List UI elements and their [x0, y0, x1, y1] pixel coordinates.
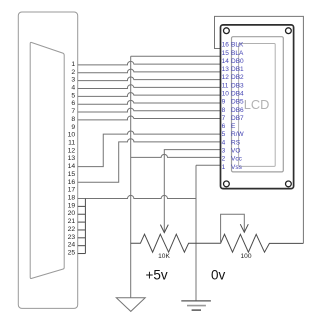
ground bus ladder: connector pins 19-25 stubs	[78, 199, 86, 254]
svg-text:17: 17	[68, 187, 76, 194]
svg-text:11: 11	[222, 82, 229, 89]
wire data D5: connector pin 6 to LCD pin 9 DB5	[78, 100, 221, 104]
svg-text:2: 2	[222, 156, 226, 163]
svg-text:15: 15	[68, 171, 76, 178]
svg-text:9: 9	[71, 124, 75, 131]
svg-text:19: 19	[68, 202, 76, 209]
svg-text:4: 4	[222, 139, 226, 146]
svg-text:16: 16	[222, 42, 230, 49]
svg-text:13: 13	[68, 155, 76, 162]
ground earth symbol	[181, 301, 211, 310]
svg-text:7: 7	[71, 108, 75, 115]
svg-text:11: 11	[68, 140, 75, 147]
10K wiper arrowhead	[160, 225, 168, 233]
svg-text:7: 7	[222, 115, 226, 122]
svg-text:8: 8	[71, 116, 75, 123]
svg-text:1: 1	[71, 61, 75, 68]
svg-text:22: 22	[68, 226, 76, 233]
svg-text:14: 14	[68, 163, 76, 170]
LCD mounting hole top-right	[286, 28, 292, 34]
svg-text:LCD: LCD	[244, 97, 270, 112]
wire R/W: connector pin 14 up to LCD pin 5 R/W	[78, 131, 221, 167]
svg-text:DB1: DB1	[231, 66, 244, 73]
LCD inner bezel rectangle	[232, 37, 284, 172]
wire data D7: connector pin 8 to LCD pin 7 DB7	[78, 116, 221, 120]
LCD mounting hole bottom-left	[224, 181, 230, 187]
svg-text:13: 13	[222, 66, 230, 73]
svg-text:0v: 0v	[211, 268, 226, 283]
wire data D6: connector pin 7 to LCD pin 8 DB6	[78, 108, 221, 112]
svg-text:10: 10	[68, 132, 76, 139]
LCD pin labels 16..1	[222, 42, 245, 171]
wire data D1: connector pin 2 to LCD pin 13 DB1	[78, 69, 221, 73]
wire BLK loop: LCD pin 16 around module to 100 pot	[215, 16, 304, 243]
wire data D2: connector pin 3 to LCD pin 12 DB2	[78, 77, 221, 81]
svg-text:25: 25	[68, 250, 76, 257]
svg-text:VO: VO	[231, 148, 240, 155]
svg-text:2: 2	[71, 69, 75, 76]
svg-text:10K: 10K	[158, 253, 170, 260]
potentiometer RV2 100 body	[196, 234, 303, 252]
svg-text:1: 1	[222, 164, 226, 171]
potentiometer RV2 wiper wire	[221, 214, 245, 243]
svg-text:10: 10	[222, 91, 230, 98]
wire RS: connector pin 16 up to LCD pin 4 RS	[78, 139, 221, 183]
svg-text:3: 3	[71, 77, 75, 84]
svg-text:Vss: Vss	[231, 164, 243, 171]
svg-text:4: 4	[71, 85, 75, 92]
svg-text:BLK: BLK	[231, 42, 244, 49]
100 wiper arrowhead	[240, 224, 248, 232]
svg-text:DB4: DB4	[231, 91, 244, 98]
svg-text:18: 18	[68, 195, 76, 202]
svg-text:E: E	[231, 123, 236, 130]
svg-text:5: 5	[222, 131, 226, 138]
svg-text:21: 21	[68, 218, 76, 225]
0v rail vertical	[195, 165, 197, 301]
wire BLA: +5v rail to LCD pin 15 BLA	[131, 55, 221, 57]
connector J1 DB25 body outline	[18, 12, 77, 308]
svg-text:3: 3	[222, 148, 226, 155]
svg-text:5: 5	[71, 92, 75, 99]
svg-text:DB7: DB7	[231, 115, 244, 122]
wire VO: LCD pin 3 VO to 10K wiper riser	[164, 150, 220, 233]
wire data D0: connector pin 1 to LCD pin 14 DB0	[78, 61, 221, 65]
svg-text:8: 8	[222, 107, 226, 114]
connector J1 D-sub face	[30, 42, 64, 278]
svg-text:DB6: DB6	[231, 107, 244, 114]
svg-text:100: 100	[240, 253, 251, 260]
svg-text:15: 15	[222, 50, 230, 57]
potentiometer RV1 10K body	[131, 234, 196, 252]
connector J1 pin numbers 1-25	[68, 61, 76, 257]
svg-text:20: 20	[68, 210, 76, 217]
wire Vcc: +5v rail to LCD pin 2 Vcc	[131, 154, 221, 157]
svg-text:BLA: BLA	[231, 50, 244, 57]
svg-text:R/W: R/W	[231, 131, 245, 138]
LCD mounting hole top-left	[224, 28, 230, 34]
svg-text:6: 6	[71, 100, 75, 107]
svg-text:+5v: +5v	[146, 268, 168, 283]
svg-text:16: 16	[68, 179, 76, 186]
svg-text:24: 24	[68, 242, 76, 249]
svg-text:DB3: DB3	[231, 82, 244, 89]
svg-text:9: 9	[222, 99, 226, 106]
svg-text:DB5: DB5	[231, 99, 244, 106]
wire Vss: LCD pin 1 Vss to 0v rail	[196, 164, 221, 166]
LCD mounting hole bottom-right	[286, 181, 292, 187]
wire data D4: connector pin 5 to LCD pin 10 DB4	[78, 93, 221, 97]
svg-text:RS: RS	[231, 139, 241, 146]
wire data D3: connector pin 4 to LCD pin 11 DB3	[78, 85, 221, 89]
svg-text:12: 12	[68, 147, 76, 154]
LCD display area rectangle	[239, 44, 276, 167]
svg-text:14: 14	[222, 58, 230, 65]
LCD module outer frame	[221, 25, 294, 189]
+5v rail vertical	[130, 56, 132, 297]
svg-text:6: 6	[222, 123, 226, 130]
+5v supply triangle symbol	[116, 298, 145, 312]
svg-text:23: 23	[68, 234, 76, 241]
svg-text:DB0: DB0	[231, 58, 244, 65]
svg-text:12: 12	[222, 74, 230, 81]
svg-text:DB2: DB2	[231, 74, 244, 81]
svg-text:Vcc: Vcc	[231, 156, 243, 163]
wire 0v: connector pin 18 to 0v rail	[78, 195, 196, 198]
